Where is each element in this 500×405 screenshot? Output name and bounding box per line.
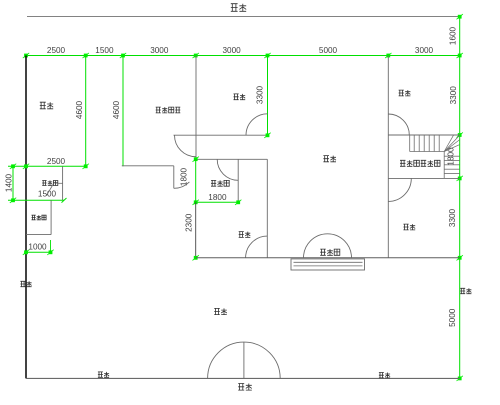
tick xyxy=(23,164,29,169)
svg-text:2500: 2500 xyxy=(47,46,66,55)
dimension tick right at y=135 xyxy=(457,132,463,137)
dim line 1400 (left) xyxy=(12,166,14,200)
tick xyxy=(10,198,16,203)
tick xyxy=(23,250,29,255)
bathroom west dim line 1800 (green) xyxy=(195,159,197,202)
bathroom east wall xyxy=(237,159,239,202)
dimension tick right at y=178.4 xyxy=(457,176,463,181)
left bathroom east wall xyxy=(62,166,64,200)
label: bathroom (central) xyxy=(211,180,229,186)
house south wall xyxy=(196,257,460,259)
south fence line xyxy=(26,377,460,379)
label: fence (bottom left) xyxy=(98,372,109,377)
bedroom3 south wall xyxy=(388,134,459,136)
dimension tick at x=459.7 xyxy=(457,53,463,58)
dimension tick right at y=257.8 xyxy=(457,255,463,260)
label: bathroom (left) xyxy=(42,181,58,186)
label: wash stand xyxy=(32,215,47,220)
label: fence (left) xyxy=(20,281,31,286)
dimension tick at x=85.7 xyxy=(83,53,89,58)
svg-text:3300: 3300 xyxy=(449,86,458,105)
bedroom2 east wall xyxy=(266,159,268,258)
porch outer rect xyxy=(291,259,365,270)
wash stand east wall xyxy=(50,200,52,234)
label: main gate xyxy=(238,384,252,391)
tick xyxy=(193,200,199,205)
kitchen south wall (west part) xyxy=(122,165,174,167)
dimension tick at x=26 xyxy=(23,53,29,58)
tick xyxy=(193,157,199,162)
svg-text:1400: 1400 xyxy=(4,173,13,192)
dimension tick at x=195.7 xyxy=(193,53,199,58)
label: bedroom4 xyxy=(403,224,415,230)
svg-text:4600: 4600 xyxy=(112,100,121,119)
wash stand south wall xyxy=(26,234,51,236)
svg-text:3000: 3000 xyxy=(415,46,434,55)
bedroom4 door swing arc xyxy=(388,178,411,201)
bathroom door swing arc xyxy=(217,159,238,180)
svg-text:4600: 4600 xyxy=(75,100,84,119)
tick xyxy=(83,164,89,169)
main gate arc xyxy=(208,342,281,378)
label: living room door xyxy=(320,249,340,255)
living room west wall is bedroom walls; east wall xyxy=(387,56,389,258)
extension line wash corner xyxy=(50,240,52,252)
stairs winder fan lines xyxy=(444,135,460,151)
tick xyxy=(264,133,270,138)
svg-text:1800: 1800 xyxy=(208,193,227,202)
living room door arc xyxy=(304,234,352,258)
dimension tick at x=267.5 xyxy=(264,53,270,58)
label: neighbor (top) xyxy=(231,4,246,12)
left bathroom door leaf xyxy=(46,185,53,196)
corridor door swing arc xyxy=(174,182,190,188)
tick xyxy=(10,164,16,169)
bedroom1 south wall xyxy=(174,134,268,136)
label: fence (bottom right) xyxy=(379,373,390,378)
svg-text:3000: 3000 xyxy=(150,46,169,55)
kitchen west wall (green, 4600) xyxy=(122,56,124,167)
label: courtyard xyxy=(214,308,227,314)
porch step line 2 xyxy=(294,265,363,267)
svg-text:1600: 1600 xyxy=(449,26,458,45)
label: bedroom3 xyxy=(399,90,411,96)
label: storeroom xyxy=(40,102,53,109)
dimension tick right at y=16.7 xyxy=(457,14,463,19)
bathroom south dim line 1800 (green) xyxy=(196,201,239,203)
bedroom1 east wall + dim 3300 (green) xyxy=(267,56,269,136)
label: stair storage room xyxy=(400,160,440,166)
dimension tick at x=123 xyxy=(120,53,126,58)
svg-text:1000: 1000 xyxy=(28,243,47,252)
svg-text:1500: 1500 xyxy=(95,46,114,55)
stairs upper treads xyxy=(409,135,411,152)
west wall and fence (black) xyxy=(25,56,27,379)
bedroom2 door swing arc xyxy=(246,236,268,258)
bathroom north wall xyxy=(196,158,268,160)
bedroom2 west wall + dim 2300 xyxy=(195,202,197,257)
svg-text:3300: 3300 xyxy=(448,208,457,227)
porch step line 1 xyxy=(294,261,363,263)
label: shared kitchen xyxy=(156,107,181,113)
svg-text:3300: 3300 xyxy=(255,85,264,104)
storeroom south wall + dim line 2500 xyxy=(8,165,86,167)
stairs upper run bottom xyxy=(410,151,445,153)
kitchen east wall xyxy=(195,56,197,160)
left bathroom south wall + 1400 ext (green) xyxy=(8,199,64,201)
north wall + top dimension line xyxy=(26,55,460,57)
svg-text:2500: 2500 xyxy=(47,157,66,166)
arrow tick at wash corner xyxy=(62,198,67,203)
svg-text:5000: 5000 xyxy=(448,308,457,327)
kitchen door swing arc xyxy=(175,135,197,157)
label: fence (right) xyxy=(460,288,471,293)
bedroom1 door swing arc xyxy=(246,114,268,136)
bedroom3 door swing arc xyxy=(388,114,409,135)
storeroom east wall (green, 4600) xyxy=(85,56,87,167)
stairs corner vertical xyxy=(443,152,445,179)
east boundary + right dimension line xyxy=(459,17,461,379)
corridor door jamb xyxy=(173,166,175,189)
stairs lower treads xyxy=(444,155,460,157)
left bathroom door dash xyxy=(57,182,63,184)
neighbor boundary line (top) xyxy=(27,16,460,18)
stairs south wall xyxy=(388,177,459,179)
label: bedroom2 xyxy=(239,232,251,238)
svg-text:3000: 3000 xyxy=(222,46,241,55)
tick xyxy=(235,200,241,205)
svg-text:5000: 5000 xyxy=(319,46,338,55)
svg-text:2300: 2300 xyxy=(185,213,194,232)
svg-text:1800: 1800 xyxy=(180,167,189,186)
main gate center post xyxy=(243,342,245,378)
dim line 1000 xyxy=(26,251,51,253)
dimension tick at x=388.3 xyxy=(385,53,391,58)
tick small xyxy=(193,255,199,260)
tick xyxy=(47,250,53,255)
label: living room xyxy=(323,156,336,162)
dimension tick right at y=378.4 xyxy=(457,376,463,381)
label: bedroom1 xyxy=(234,94,246,100)
